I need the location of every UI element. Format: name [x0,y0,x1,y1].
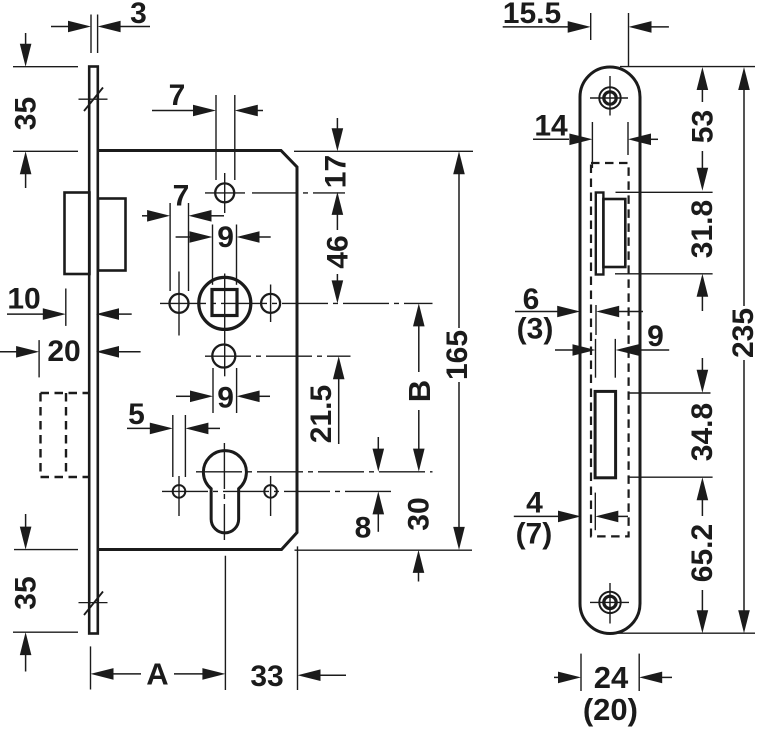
left 5 dia fixing hole [173,476,186,516]
faceplate break mark top [79,88,108,112]
right 5 dia fixing hole [264,476,277,516]
svg-text:5: 5 [128,398,145,431]
latch bolt head (protruding) [65,193,90,275]
dimension 35 bottom [10,514,43,672]
svg-text:30: 30 [403,497,436,530]
svg-text:8: 8 [355,512,372,545]
dimension 65.2 [686,498,719,633]
svg-text:21.5: 21.5 [305,385,338,443]
svg-text:14: 14 [534,110,568,143]
svg-text:24: 24 [594,660,629,695]
dimension 21.5 [305,356,345,444]
extension ticks left of faceplate [13,67,78,633]
svg-text:7: 7 [169,79,186,112]
top fixing hole 7 dia [205,173,245,213]
latch bolt face [603,199,625,267]
cylinder horizontal centre line [196,471,433,473]
follower square spindle hub [199,277,251,329]
dimension 30 [403,497,436,581]
svg-text:31.8: 31.8 [686,200,719,258]
dead bolt hidden outline (dashed) [41,393,90,477]
dead bolt slot [595,391,616,477]
svg-text:4: 4 [526,487,543,520]
dimension 10 latch projection [7,283,132,326]
dimension 165 case height [441,151,474,550]
svg-text:9: 9 [217,221,234,254]
horizontal centre line through follower [160,302,433,304]
svg-text:20: 20 [47,335,80,368]
svg-text:235: 235 [727,308,758,358]
extension lines right side [615,67,755,634]
dimension 5 fixing hole dia [127,398,220,477]
cylinder vertical centre line [223,443,225,540]
faceplate break mark bottom [79,592,108,616]
svg-text:65.2: 65.2 [686,524,719,582]
dimension 15.5 [503,0,669,67]
dimension 17 [320,118,353,188]
svg-text:34.8: 34.8 [686,403,719,461]
dimension 34.8 [686,358,719,500]
svg-text:10: 10 [7,283,40,316]
left fixing hole 7 dia [170,272,189,336]
dimension 7 top hole dia [152,79,263,180]
svg-text:(20): (20) [583,692,638,727]
svg-text:53: 53 [687,110,720,143]
svg-text:3: 3 [130,0,147,30]
dimension 20 dead bolt throw [0,335,141,377]
dimension A backset [91,657,226,692]
dimension 4 (7) [514,487,628,551]
dimension 7 left hole dia [142,180,224,292]
top fixing screw hole [590,76,628,116]
dimension 8 [355,437,384,545]
dimension 33 [250,660,346,693]
dimension (20) alternative width [583,692,638,727]
svg-text:33: 33 [250,660,283,693]
svg-text:B: B [402,380,437,402]
dimension 24 plate width [554,654,672,695]
svg-text:35: 35 [10,97,43,130]
centre line through 5 dia holes [162,490,391,492]
bottom fixing screw hole [590,583,629,624]
extension line case top right [294,150,473,152]
dimension 9 spindle square upper [176,221,271,285]
latch bolt face plate strip [596,193,604,275]
lock case hidden outline (dashed) [591,163,629,536]
centre line through top hole [252,192,345,194]
dimension 9 dead bolt slot width [555,320,669,378]
svg-text:(3): (3) [517,312,554,345]
dimension 14 [533,110,658,169]
dimension 9 spindle square lower [176,368,270,415]
svg-text:165: 165 [441,330,474,380]
face plate outline with rounded ends [580,67,640,634]
dimension 53 [687,67,720,191]
svg-text:46: 46 [322,235,355,268]
dimension 35 top [10,33,43,188]
svg-text:17: 17 [320,155,353,188]
right fixing hole 7 dia [261,285,280,323]
dimension 46 [322,192,355,304]
dimension 31.8 [686,200,719,311]
lock case outline with chamfered right corners [98,151,297,550]
dimension 6 (3) [515,283,643,345]
svg-text:(7): (7) [516,517,553,550]
svg-text:A: A [146,657,168,692]
svg-text:35: 35 [10,576,43,609]
extension lines for A and 33 [91,546,298,690]
euro profile cylinder hole [203,451,246,533]
faceplate side view (3 mm strip) [89,67,98,634]
svg-text:15.5: 15.5 [503,0,561,30]
lower hole below follower [212,345,235,368]
latch bolt body inside case [98,199,126,271]
svg-text:9: 9 [647,320,664,353]
centre line through lower hole [205,355,351,357]
svg-text:9: 9 [217,382,234,415]
extension line case bottom right [295,549,473,551]
vertical centre line through follower and lower hole [224,274,226,377]
svg-text:7: 7 [173,180,190,213]
dimension 235 plate length [727,67,758,633]
dimension 3 faceplate thickness [51,0,150,53]
dimension B distance [402,303,437,471]
